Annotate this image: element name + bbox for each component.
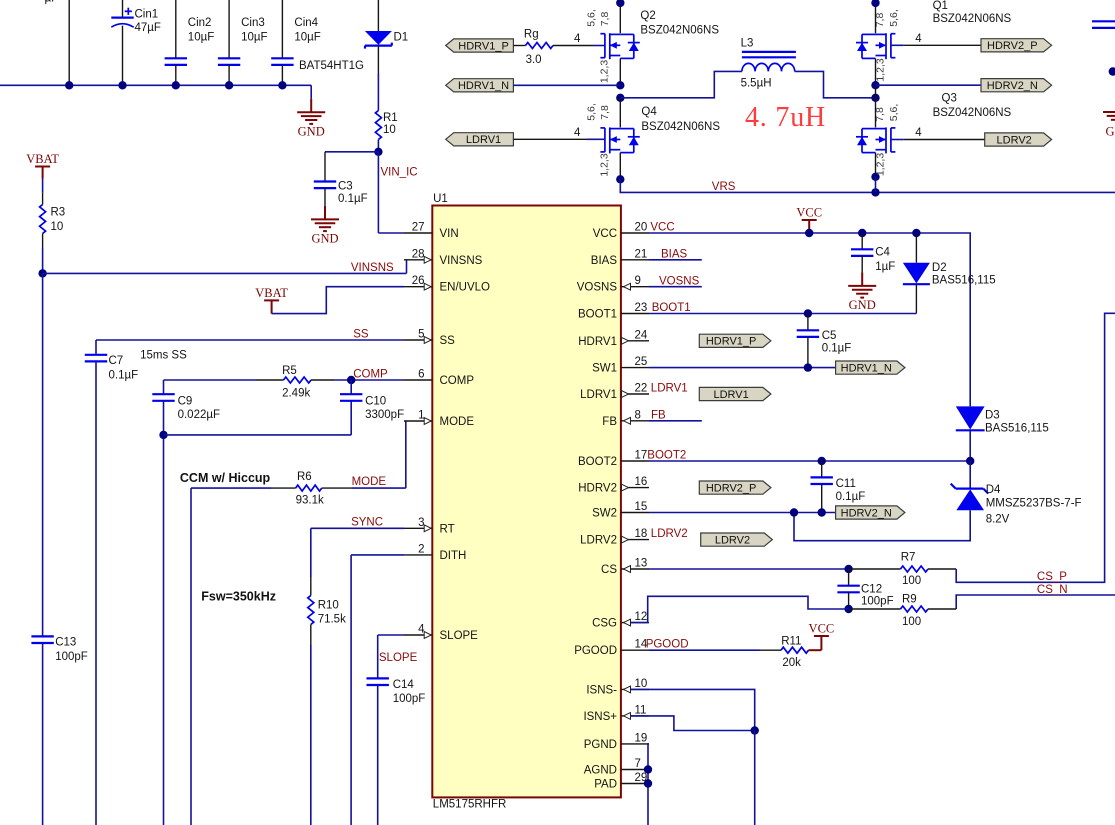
svg-text:SW1: SW1 — [592, 363, 617, 375]
svg-text:C13: C13 — [55, 637, 76, 649]
svg-text:2.49k: 2.49k — [282, 388, 310, 400]
svg-text:CS_N: CS_N — [1037, 584, 1068, 596]
svg-text:VCC: VCC — [809, 621, 835, 635]
svg-text:LDRV2: LDRV2 — [651, 528, 688, 540]
svg-text:1,2,3: 1,2,3 — [599, 153, 611, 177]
svg-text:C10: C10 — [365, 396, 386, 408]
svg-text:3: 3 — [418, 517, 424, 529]
svg-text:25: 25 — [635, 356, 648, 368]
svg-text:CS_P: CS_P — [1037, 571, 1067, 583]
svg-text:10µF: 10µF — [241, 32, 267, 44]
svg-text:1: 1 — [418, 410, 424, 422]
svg-text:R9: R9 — [902, 594, 917, 606]
svg-text:BSZ042N06NS: BSZ042N06NS — [933, 13, 1012, 25]
svg-text:CCM w/ Hiccup: CCM w/ Hiccup — [180, 471, 271, 485]
svg-text:VCC: VCC — [593, 228, 617, 240]
svg-text:VBAT: VBAT — [255, 286, 288, 300]
svg-text:15: 15 — [635, 501, 648, 513]
svg-text:26: 26 — [412, 275, 425, 287]
svg-text:D4: D4 — [986, 484, 1001, 496]
svg-text:RT: RT — [440, 523, 455, 535]
svg-text:3300pF: 3300pF — [365, 409, 404, 421]
svg-text:Cin2: Cin2 — [188, 17, 212, 29]
svg-text:BAS516,115: BAS516,115 — [985, 423, 1049, 435]
svg-text:100pF: 100pF — [55, 651, 88, 663]
svg-text:BAS516,115: BAS516,115 — [932, 275, 996, 287]
svg-text:100pF: 100pF — [861, 596, 894, 608]
svg-text:EN/UVLO: EN/UVLO — [440, 282, 491, 294]
svg-text:HDRV2_P: HDRV2_P — [987, 40, 1038, 52]
svg-text:HDRV1_N: HDRV1_N — [841, 363, 892, 375]
svg-text:5,6,: 5,6, — [888, 104, 900, 122]
svg-text:4. 7uH: 4. 7uH — [745, 102, 826, 133]
svg-text:CS: CS — [601, 564, 617, 576]
svg-text:R7: R7 — [901, 552, 916, 564]
svg-text:MODE: MODE — [440, 416, 475, 428]
svg-text:13: 13 — [635, 558, 648, 570]
svg-text:R6: R6 — [297, 471, 312, 483]
svg-text:5,6,: 5,6, — [888, 9, 900, 27]
svg-text:7,8: 7,8 — [599, 105, 611, 120]
svg-text:0.1µF: 0.1µF — [109, 370, 139, 382]
svg-text:100: 100 — [902, 575, 921, 587]
svg-text:5,6,: 5,6, — [586, 103, 598, 121]
svg-text:D3: D3 — [985, 410, 1000, 422]
svg-text:U1: U1 — [433, 193, 448, 205]
svg-text:8: 8 — [635, 409, 641, 421]
svg-text:D2: D2 — [932, 262, 947, 274]
svg-text:BOOT1: BOOT1 — [652, 302, 691, 314]
svg-text:93.1k: 93.1k — [296, 495, 324, 507]
svg-text:BSZ042N06NS: BSZ042N06NS — [640, 25, 719, 37]
svg-text:Cin1: Cin1 — [135, 9, 159, 21]
svg-text:1,2,3: 1,2,3 — [875, 153, 887, 177]
svg-text:SS: SS — [353, 328, 369, 340]
svg-text:VCC: VCC — [650, 222, 674, 234]
svg-text:47µF: 47µF — [135, 22, 161, 34]
svg-text:R5: R5 — [282, 365, 297, 377]
svg-text:20: 20 — [635, 222, 648, 234]
svg-text:Rg: Rg — [524, 29, 539, 41]
svg-text:MMSZ5237BS-7-F: MMSZ5237BS-7-F — [986, 498, 1082, 510]
svg-text:C4: C4 — [875, 247, 890, 259]
svg-text:Cin4: Cin4 — [294, 17, 318, 29]
svg-text:CSG: CSG — [592, 618, 617, 630]
svg-text:PGOOD: PGOOD — [646, 639, 689, 651]
svg-text:27: 27 — [412, 222, 425, 234]
svg-text:5.5µH: 5.5µH — [741, 77, 772, 89]
svg-text:µF: µF — [45, 0, 59, 5]
svg-text:7,8: 7,8 — [874, 13, 886, 28]
svg-text:SS: SS — [440, 335, 456, 347]
svg-text:ISNS-: ISNS- — [586, 684, 617, 696]
svg-text:LDRV1: LDRV1 — [580, 389, 617, 401]
svg-text:5: 5 — [418, 329, 424, 341]
svg-text:16: 16 — [635, 476, 648, 488]
svg-text:GND: GND — [1106, 124, 1115, 138]
svg-text:3.0: 3.0 — [526, 54, 542, 66]
svg-text:MODE: MODE — [352, 476, 387, 488]
svg-text:GND: GND — [298, 125, 325, 139]
svg-text:0.1µF: 0.1µF — [836, 491, 866, 503]
svg-text:4: 4 — [915, 127, 922, 139]
svg-text:C14: C14 — [393, 679, 415, 691]
svg-text:HDRV1: HDRV1 — [578, 336, 617, 348]
svg-text:GND: GND — [849, 298, 876, 312]
svg-text:SLOPE: SLOPE — [379, 652, 418, 664]
svg-text:FB: FB — [651, 410, 666, 422]
svg-text:HDRV2: HDRV2 — [578, 483, 617, 495]
svg-text:BOOT2: BOOT2 — [647, 450, 686, 462]
svg-text:L3: L3 — [741, 37, 754, 49]
svg-text:BIAS: BIAS — [591, 255, 618, 267]
svg-text:SW2: SW2 — [592, 508, 617, 520]
svg-text:BAT54HT1G: BAT54HT1G — [299, 60, 364, 72]
svg-text:VCC: VCC — [796, 205, 822, 219]
svg-text:ISNS+: ISNS+ — [583, 711, 617, 723]
svg-text:SYNC: SYNC — [351, 517, 383, 529]
svg-text:BOOT2: BOOT2 — [578, 456, 617, 468]
svg-text:15ms SS: 15ms SS — [140, 350, 187, 362]
svg-text:Q1: Q1 — [933, 0, 948, 12]
svg-text:R10: R10 — [318, 600, 339, 612]
svg-text:BSZ042N06NS: BSZ042N06NS — [641, 121, 720, 133]
svg-text:10: 10 — [635, 678, 648, 690]
svg-text:24: 24 — [635, 329, 648, 341]
svg-text:8.2V: 8.2V — [986, 514, 1010, 526]
svg-text:0.022µF: 0.022µF — [178, 409, 220, 421]
svg-text:LDRV1: LDRV1 — [713, 389, 748, 401]
svg-text:20k: 20k — [782, 657, 801, 669]
svg-text:7,8: 7,8 — [599, 12, 611, 27]
svg-text:10: 10 — [383, 124, 396, 136]
svg-text:Fsw=350kHz: Fsw=350kHz — [201, 590, 276, 604]
svg-text:Q3: Q3 — [942, 93, 957, 105]
svg-text:HDRV1_P: HDRV1_P — [458, 40, 509, 52]
svg-text:VINSNS: VINSNS — [440, 255, 483, 267]
svg-text:GND: GND — [311, 232, 338, 246]
svg-text:11: 11 — [635, 704, 647, 716]
svg-text:12: 12 — [635, 611, 648, 623]
svg-text:7: 7 — [635, 758, 641, 770]
svg-text:HDRV1_N: HDRV1_N — [458, 80, 509, 92]
svg-text:22: 22 — [635, 383, 648, 395]
svg-text:LDRV1: LDRV1 — [466, 134, 501, 146]
svg-text:LDRV2: LDRV2 — [715, 535, 750, 547]
svg-text:BOOT1: BOOT1 — [578, 309, 617, 321]
svg-text:D1: D1 — [394, 32, 409, 44]
svg-text:C11: C11 — [836, 478, 856, 490]
svg-text:100: 100 — [902, 616, 921, 628]
svg-text:PGND: PGND — [584, 739, 617, 751]
svg-text:4: 4 — [574, 33, 581, 45]
svg-text:1µF: 1µF — [875, 261, 895, 273]
svg-text:R1: R1 — [383, 112, 398, 124]
svg-text:SLOPE: SLOPE — [440, 630, 479, 642]
svg-text:10µF: 10µF — [294, 32, 320, 44]
svg-text:0.1µF: 0.1µF — [338, 193, 368, 205]
svg-text:0.1µF: 0.1µF — [822, 343, 852, 355]
svg-text:VRS: VRS — [712, 181, 736, 193]
svg-text:19: 19 — [635, 732, 648, 744]
svg-text:R11: R11 — [781, 636, 801, 648]
svg-text:VIN: VIN — [440, 228, 459, 240]
svg-text:C9: C9 — [178, 396, 193, 408]
svg-text:COMP: COMP — [353, 368, 388, 380]
svg-text:4: 4 — [915, 33, 922, 45]
svg-text:4: 4 — [574, 127, 581, 139]
svg-text:10: 10 — [51, 221, 64, 233]
svg-text:BIAS: BIAS — [661, 249, 688, 261]
svg-text:VBAT: VBAT — [26, 152, 59, 166]
svg-text:VIN_IC: VIN_IC — [381, 167, 418, 179]
svg-text:C12: C12 — [861, 584, 882, 596]
svg-text:VOSNS: VOSNS — [577, 282, 618, 294]
svg-text:LDRV2: LDRV2 — [580, 535, 617, 547]
svg-text:PGOOD: PGOOD — [574, 645, 617, 657]
svg-text:Q2: Q2 — [640, 10, 655, 22]
svg-text:FB: FB — [602, 416, 617, 428]
svg-text:AGND: AGND — [584, 765, 617, 777]
svg-text:VINSNS: VINSNS — [351, 262, 394, 274]
svg-text:Q4: Q4 — [641, 106, 657, 118]
svg-text:10µF: 10µF — [188, 32, 214, 44]
svg-text:HDRV1_P: HDRV1_P — [706, 336, 757, 348]
svg-text:HDRV2_N: HDRV2_N — [841, 507, 892, 519]
svg-text:71.5k: 71.5k — [318, 614, 346, 626]
svg-text:LDRV1: LDRV1 — [651, 383, 688, 395]
svg-text:6: 6 — [418, 369, 424, 381]
svg-text:COMP: COMP — [440, 375, 475, 387]
svg-text:21: 21 — [635, 248, 648, 260]
svg-text:5,6,: 5,6, — [586, 9, 598, 27]
svg-text:18: 18 — [635, 528, 648, 540]
svg-text:9: 9 — [635, 275, 641, 287]
svg-text:DITH: DITH — [440, 550, 467, 562]
svg-text:LM5175RHFR: LM5175RHFR — [433, 799, 507, 811]
svg-text:BSZ042N06NS: BSZ042N06NS — [933, 107, 1012, 119]
svg-text:2: 2 — [418, 543, 424, 555]
svg-text:HDRV2_N: HDRV2_N — [987, 80, 1038, 92]
svg-text:PAD: PAD — [594, 779, 617, 791]
svg-text:7,8: 7,8 — [874, 107, 886, 122]
svg-text:C7: C7 — [109, 355, 124, 367]
svg-text:1,2,3: 1,2,3 — [875, 58, 887, 82]
svg-text:17: 17 — [635, 450, 648, 462]
svg-text:28: 28 — [412, 248, 425, 260]
svg-text:100pF: 100pF — [393, 693, 426, 705]
svg-text:LDRV2: LDRV2 — [997, 134, 1032, 146]
svg-text:R3: R3 — [51, 207, 66, 219]
svg-text:1,2,3: 1,2,3 — [599, 60, 611, 84]
svg-text:VOSNS: VOSNS — [659, 276, 700, 288]
svg-text:C3: C3 — [338, 181, 353, 193]
svg-text:Cin3: Cin3 — [241, 17, 265, 29]
svg-text:C5: C5 — [822, 330, 837, 342]
svg-text:23: 23 — [635, 302, 648, 314]
svg-text:HDRV2_P: HDRV2_P — [706, 483, 757, 495]
